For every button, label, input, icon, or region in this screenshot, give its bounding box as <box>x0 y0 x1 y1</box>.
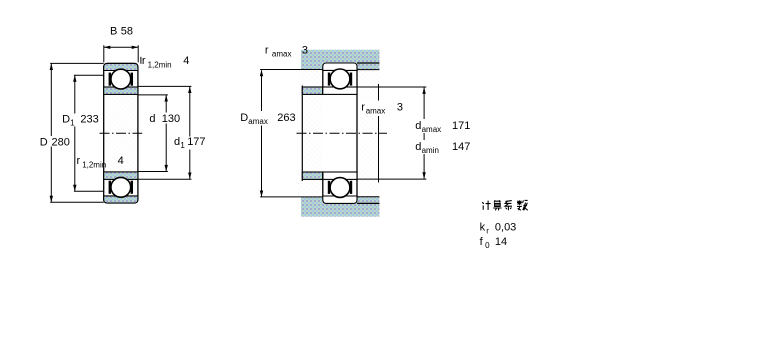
svg-text:58: 58 <box>121 25 133 37</box>
svg-text:r: r <box>142 55 146 67</box>
groove shoulder edge right (bottom) <box>131 181 133 194</box>
dimension d: arrow down <box>165 165 168 172</box>
dimension D1: arrow down <box>73 185 76 192</box>
label D1 233 <box>61 114 99 127</box>
dimension da: extension line top <box>357 86 426 88</box>
dimension D1: extension line bottom <box>74 190 104 192</box>
label damax 171 <box>414 119 471 133</box>
outer ring top section (middle) <box>323 63 357 70</box>
groove shoulder edge left (middle bottom) <box>328 181 330 194</box>
watermark area <box>298 50 381 217</box>
svg-text:1,2min: 1,2min <box>148 61 172 70</box>
outer ring top section <box>104 63 138 70</box>
dimension da: arrow up <box>422 87 425 94</box>
ball (middle bottom) <box>330 178 350 198</box>
svg-text:D: D <box>40 136 48 148</box>
dimension d: extension line top <box>138 94 168 96</box>
r amax right: extension line <box>378 84 380 183</box>
svg-text:3: 3 <box>302 45 308 57</box>
dimension B: arrow left <box>104 46 111 49</box>
r12min top: corner tick <box>140 57 142 64</box>
inner ring top section (middle) <box>323 87 357 94</box>
label r amax 3 (right) <box>360 101 403 117</box>
svg-text:1,2min: 1,2min <box>82 161 106 170</box>
housing section top <box>301 50 379 70</box>
dimension Damax: arrow down <box>260 191 263 198</box>
label d1 177 <box>173 137 206 150</box>
svg-text:263: 263 <box>277 112 295 124</box>
dimension D: arrow down <box>50 196 53 203</box>
housing bore line bottom-right <box>357 202 379 204</box>
shaft shoulder face line <box>301 86 303 182</box>
centerline (middle view axis) <box>297 132 388 134</box>
label damin 147 <box>414 140 469 154</box>
svg-text:B: B <box>110 25 117 37</box>
inner ring bottom section (middle) <box>323 172 357 179</box>
groove shoulder edge left (bottom) <box>109 181 111 194</box>
dimension d: dimension line <box>165 95 167 171</box>
svg-text:d: d <box>149 113 155 125</box>
svg-text:0,03: 0,03 <box>495 222 516 234</box>
dimension d1: arrow up <box>188 87 191 94</box>
dimension D: extension line bottom <box>50 201 103 203</box>
svg-text:14: 14 <box>495 236 507 248</box>
groove shoulder edge left (top) <box>109 73 111 86</box>
housing section bottom <box>301 197 379 217</box>
svg-text:130: 130 <box>162 113 180 125</box>
title 计算系数 (drawn strokes) <box>482 200 528 210</box>
svg-text:233: 233 <box>80 113 98 125</box>
dimension D: arrow up <box>50 64 53 71</box>
bearing body outline <box>104 63 138 203</box>
svg-text:d: d <box>415 120 421 132</box>
char 系 <box>505 201 512 211</box>
svg-text:D: D <box>240 112 248 124</box>
dimension d1: extension line top <box>138 85 191 87</box>
housing shoulder line top-left / Damax extension top <box>260 69 323 71</box>
svg-text:3: 3 <box>397 102 403 114</box>
svg-text:4: 4 <box>118 155 124 167</box>
groove shoulder edge right (middle top) <box>350 73 352 86</box>
shaft shoulder section bottom <box>302 172 323 179</box>
svg-text:d: d <box>415 141 421 153</box>
svg-text:177: 177 <box>187 136 205 148</box>
svg-text:r: r <box>77 155 81 167</box>
bearing left face line upper (middle view) <box>322 70 324 94</box>
svg-text:amax: amax <box>366 107 386 116</box>
svg-text:r: r <box>486 226 489 235</box>
svg-text:0: 0 <box>485 241 490 250</box>
groove shoulder edge right (top) <box>131 73 133 86</box>
svg-text:147: 147 <box>452 141 470 153</box>
dimension B: dimension line <box>104 46 138 48</box>
dimension D: extension line top <box>50 62 103 64</box>
svg-text:r: r <box>265 45 269 57</box>
dimension Damax: arrow up <box>260 70 263 77</box>
ball (bottom) <box>111 177 131 197</box>
svg-text:d: d <box>174 136 180 148</box>
svg-text:280: 280 <box>52 136 70 148</box>
shaft shoulder section top <box>302 87 323 94</box>
dimension da: dimension line <box>423 88 425 179</box>
housing bore line top-right <box>357 62 379 64</box>
dimension D1: dimension line <box>74 75 76 191</box>
label d 130 <box>148 113 180 124</box>
groove shoulder edge left (middle top) <box>328 73 330 86</box>
bearing left face line lower (middle view) <box>322 172 324 196</box>
svg-text:1: 1 <box>180 141 185 150</box>
char 数 <box>517 200 528 210</box>
housing shoulder line bottom-right <box>357 196 379 198</box>
dimension d: extension line bottom <box>138 171 168 173</box>
dimension da: extension line bottom <box>357 178 426 180</box>
housing shoulder line top-right <box>357 69 379 71</box>
svg-text:171: 171 <box>452 120 470 132</box>
char 算 <box>493 200 501 210</box>
bearing right face line (middle view) <box>356 68 358 198</box>
svg-text:amax: amax <box>422 125 442 134</box>
bearing body fill (middle view) <box>323 63 357 203</box>
svg-text:amax: amax <box>248 117 268 126</box>
svg-text:4: 4 <box>183 55 189 67</box>
ball (middle top) <box>330 69 350 89</box>
svg-text:1: 1 <box>70 118 75 127</box>
label Damax 263 <box>239 111 297 126</box>
dimension d: arrow up <box>165 95 168 102</box>
dimension D1: arrow up <box>73 75 76 82</box>
outer ring bottom section <box>104 196 138 203</box>
inner ring bottom section <box>104 172 138 180</box>
char 计 <box>482 201 490 210</box>
dimension d1: extension line bottom <box>138 178 191 180</box>
dimension D: dimension line <box>50 64 52 203</box>
svg-text:amax: amax <box>272 50 292 59</box>
inner ring top section <box>104 87 138 94</box>
dimension B: extension line left <box>103 45 105 62</box>
dimension d1: arrow down <box>188 173 191 180</box>
dimension B: arrow right <box>132 46 139 49</box>
dimension d1: dimension line <box>189 87 191 180</box>
ball (top) <box>111 69 131 89</box>
dimension B: extension line right <box>137 45 139 62</box>
label D 280 <box>39 136 71 147</box>
centerline (left view axis) <box>100 132 143 134</box>
outer ring bottom section (middle) <box>323 196 357 203</box>
groove shoulder edge right (middle bottom) <box>350 181 352 194</box>
dimension da: arrow down <box>422 172 425 179</box>
svg-text:r: r <box>361 102 365 114</box>
dimension Damax: dimension line <box>261 70 263 196</box>
svg-text:D: D <box>62 113 70 125</box>
dimension D1: extension line top <box>74 74 104 76</box>
svg-text:amin: amin <box>422 146 439 155</box>
housing shoulder line bottom-left / Damax extension bottom <box>260 196 323 198</box>
svg-text:k: k <box>480 222 486 234</box>
